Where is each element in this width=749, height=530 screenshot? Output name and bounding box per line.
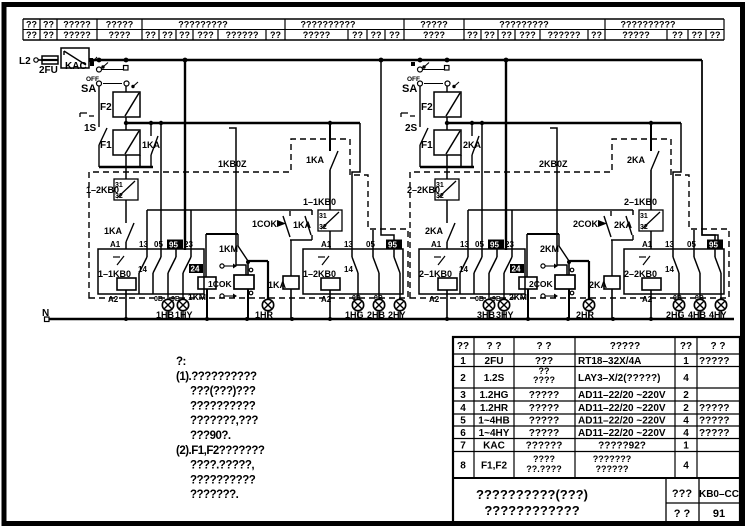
svg-text:31: 31 <box>640 213 648 220</box>
svg-text:??????????: ?????????? <box>190 474 256 486</box>
lamp 1HG <box>352 299 363 310</box>
dashed group boundary 1KB0Z <box>89 139 408 298</box>
title block text <box>476 487 739 520</box>
coil 2KM <box>509 234 559 319</box>
svg-text:13: 13 <box>460 240 469 249</box>
relay unit box 2&#8211;2KB0 <box>624 249 724 294</box>
svg-text:1~4HB: 1~4HB <box>478 416 509 427</box>
contacts 13 05 95 23 in unit 1 <box>138 240 203 295</box>
wire lamp <box>167 312 169 320</box>
svg-text:???: ??? <box>519 30 536 40</box>
svg-text:??: ?? <box>389 30 400 40</box>
terminal L2 <box>19 56 42 67</box>
svg-text:?????: ????? <box>303 30 331 40</box>
junction dots on second bus <box>445 121 653 125</box>
svg-text:05: 05 <box>154 240 163 249</box>
svg-text:F1: F1 <box>100 140 112 151</box>
cam switch coil 1COK <box>208 260 254 319</box>
wire top supply bus <box>89 59 702 62</box>
svg-text:05: 05 <box>475 240 484 249</box>
lamp 2HY <box>394 299 405 310</box>
lamp 3HB <box>483 299 494 310</box>
svg-text:6: 6 <box>460 428 466 439</box>
wire drop from top bus to 95 <box>702 60 715 249</box>
svg-text:???(???)???: ???(???)??? <box>190 386 256 398</box>
parts table grid <box>453 337 740 524</box>
svg-text:95: 95 <box>169 241 178 250</box>
svg-text:7: 7 <box>460 441 466 452</box>
svg-text:(1).??????????: (1).?????????? <box>176 371 257 383</box>
svg-text:KB0–CC: KB0–CC <box>699 489 739 500</box>
svg-text:A2: A2 <box>108 295 119 304</box>
switch 1S <box>80 112 107 167</box>
svg-text:4: 4 <box>683 416 689 427</box>
wire F2 to node <box>125 117 127 130</box>
terminal labels 08 98 unit1 <box>154 294 183 303</box>
svg-text:1: 1 <box>683 441 689 452</box>
svg-text:??: ?? <box>145 30 156 40</box>
svg-text:??????????: ?????????? <box>190 400 256 412</box>
svg-text:1COK: 1COK <box>252 219 278 229</box>
svg-text:?????????: ????????? <box>178 20 227 30</box>
svg-text:??: ?? <box>43 30 54 40</box>
svg-text:F1,F2: F1,F2 <box>481 460 508 471</box>
svg-text:0B: 0B <box>154 296 163 303</box>
wire distribution rail y210 <box>468 210 633 249</box>
svg-text:F2: F2 <box>100 102 112 113</box>
svg-text:1.2S: 1.2S <box>484 373 505 384</box>
junction dots on top bus <box>97 58 509 63</box>
svg-text:2KA: 2KA <box>627 155 646 165</box>
svg-text:A1: A1 <box>321 240 332 249</box>
svg-text:??: ?? <box>162 30 173 40</box>
svg-text:?:: ?: <box>176 356 186 368</box>
wire lamp <box>357 312 359 320</box>
wire drop from second bus to 13 <box>673 123 681 249</box>
svg-text:95: 95 <box>490 241 499 250</box>
svg-text:? ?: ? ? <box>537 341 552 352</box>
junction dots on second bus <box>124 121 332 125</box>
svg-text:??????: ?????? <box>596 464 629 474</box>
lamp 2HB <box>373 299 384 310</box>
svg-text:??????: ?????? <box>526 441 563 452</box>
svg-text:4: 4 <box>683 373 689 384</box>
svg-text:???: ??? <box>197 30 214 40</box>
svg-text:?????: ????? <box>699 356 730 367</box>
wire F1 to bottom node <box>446 155 448 167</box>
svg-text:1KA: 1KA <box>268 280 287 290</box>
svg-text:F1: F1 <box>421 140 433 151</box>
svg-text:SA: SA <box>81 83 96 95</box>
svg-text:??: ?? <box>692 30 703 40</box>
svg-text:?????: ????? <box>610 341 641 352</box>
svg-text:???????: ??????? <box>593 454 631 464</box>
svg-text:95: 95 <box>388 241 397 250</box>
wire stub to 05 <box>372 230 374 249</box>
wire lamp <box>503 312 505 320</box>
contact 1KM <box>219 234 248 261</box>
selector switch SA <box>402 62 459 112</box>
svg-text:?????: ????? <box>63 20 91 30</box>
fuse 2FU <box>39 56 58 76</box>
svg-text:24: 24 <box>191 265 200 274</box>
notes text block <box>176 356 265 501</box>
wire bottom node <box>99 166 153 168</box>
svg-text:2COK: 2COK <box>573 219 599 229</box>
wire top bus corner drop to 95 contact <box>702 60 718 249</box>
svg-text:AD11–22/20 ~220V: AD11–22/20 ~220V <box>578 428 666 439</box>
lamp 1HY <box>177 299 188 310</box>
interlock contact 2&#8211;2KB0 with pins 31 32 <box>407 179 459 200</box>
svg-text:F2: F2 <box>421 102 433 113</box>
header strip labels <box>26 20 721 41</box>
svg-text:24: 24 <box>512 265 521 274</box>
svg-text:?????: ????? <box>106 20 134 30</box>
circuit breaker F1 <box>421 130 461 155</box>
svg-text:????????????: ???????????? <box>484 503 579 518</box>
svg-text:23: 23 <box>184 240 193 249</box>
wire node to interlock <box>125 167 127 179</box>
svg-text:?????: ????? <box>622 30 650 40</box>
svg-text:1: 1 <box>683 356 689 367</box>
svg-text:2S: 2S <box>405 123 418 134</box>
contacts 13 05 95 in unit 2 <box>665 240 723 295</box>
header strip grid <box>23 19 724 40</box>
svg-text:????: ???? <box>533 375 555 385</box>
svg-text:?????: ????? <box>529 416 560 427</box>
svg-text:??: ?? <box>591 30 602 40</box>
svg-text:14: 14 <box>665 265 674 274</box>
svg-text:1COK: 1COK <box>208 279 232 289</box>
wire lamp <box>488 312 490 320</box>
coil 2KA <box>589 276 620 319</box>
coil 1KM <box>188 234 238 319</box>
lamp labels 1HG 2HB 2HY <box>345 310 406 320</box>
contact 2KM <box>540 234 569 261</box>
lamp 4HY <box>715 299 726 310</box>
svg-text:4: 4 <box>683 428 689 439</box>
wire lamp <box>267 312 269 320</box>
wire lamp <box>720 312 722 320</box>
svg-text:1KA: 1KA <box>306 155 325 165</box>
svg-text:2KA: 2KA <box>614 220 633 230</box>
svg-text:?????: ????? <box>63 30 91 40</box>
svg-text:3: 3 <box>460 390 466 401</box>
wire drop from second bus to 13 <box>352 123 360 249</box>
relay unit box 2&#8211;1KB0 <box>419 249 525 294</box>
svg-text:? ?: ? ? <box>711 341 726 352</box>
svg-text:??: ?? <box>43 20 54 30</box>
wire lamp <box>378 312 380 320</box>
contact 1KA above A1 <box>104 200 134 249</box>
contact 2KA above coil <box>614 216 633 235</box>
coil of 1&#8211;1KB0 <box>108 278 136 319</box>
svg-text:??: ?? <box>352 30 363 40</box>
svg-text:2–2KB0: 2–2KB0 <box>407 185 440 195</box>
wire node to interlock <box>446 167 448 179</box>
terminal labels 08 98 unit2 <box>673 294 721 302</box>
svg-text:???????,???: ???????,??? <box>190 415 258 427</box>
svg-text:????: ???? <box>533 454 555 464</box>
contact 2COK changeover <box>573 211 611 237</box>
svg-text:A1: A1 <box>431 240 442 249</box>
svg-text:?????????: ????????? <box>499 20 548 30</box>
coil of 2&#8211;1KB0 <box>429 278 457 319</box>
svg-text:??: ?? <box>680 341 692 352</box>
svg-text:1KA: 1KA <box>104 226 123 236</box>
svg-text:2KA: 2KA <box>425 226 444 236</box>
svg-text:?????: ????? <box>699 416 730 427</box>
svg-text:2FU: 2FU <box>39 65 58 76</box>
svg-text:5: 5 <box>460 416 466 427</box>
svg-text:??: ?? <box>457 341 469 352</box>
selector switch SA <box>81 62 138 112</box>
svg-text:? ?: ? ? <box>487 341 502 352</box>
svg-text:2KM: 2KM <box>540 244 559 254</box>
svg-text:8: 8 <box>460 460 466 471</box>
wire A1 feeder with contact 1KA <box>306 123 338 210</box>
svg-text:1KA: 1KA <box>293 220 312 230</box>
svg-text:95: 95 <box>709 241 718 250</box>
svg-text:1KM: 1KM <box>219 244 238 254</box>
svg-text:??????????: ?????????? <box>301 20 356 30</box>
svg-text:2: 2 <box>683 403 689 414</box>
wire distribution rail y210 <box>147 210 312 249</box>
svg-text:A2: A2 <box>321 295 332 304</box>
wire F2 to node <box>446 117 448 130</box>
svg-text:??: ?? <box>467 30 478 40</box>
wire feeder to COK coil <box>550 128 567 275</box>
svg-text:A2: A2 <box>642 295 653 304</box>
svg-text:?????: ????? <box>699 428 730 439</box>
contact 1COK changeover <box>252 211 290 237</box>
svg-text:??: ?? <box>26 30 37 40</box>
svg-text:0B: 0B <box>475 296 484 303</box>
svg-text:A1: A1 <box>110 240 121 249</box>
lamp 2HG <box>673 299 684 310</box>
svg-text:1~4HY: 1~4HY <box>479 428 510 439</box>
contact 2KA beside F1 <box>463 123 482 167</box>
svg-text:13: 13 <box>344 240 353 249</box>
svg-text:??????????(???): ??????????(???) <box>476 487 588 502</box>
interlock contact 1&#8211;2KB0 with pins 31 32 <box>86 179 138 200</box>
wire feeder to 05 contact <box>160 123 162 249</box>
coil of 1&#8211;2KB0 <box>321 278 340 319</box>
dashed group boundary 2KB0Z <box>410 139 729 298</box>
contacts 13 05 95 23 in unit 1 <box>459 240 524 295</box>
svg-text:??: ?? <box>179 30 190 40</box>
svg-text:14: 14 <box>459 265 468 274</box>
contact 2KA above A1 <box>425 200 455 249</box>
svg-text:RT18–32X/4A: RT18–32X/4A <box>578 356 641 367</box>
svg-text:?????: ????? <box>529 390 560 401</box>
svg-text:1KA: 1KA <box>142 140 161 150</box>
terminal labels 08 98 unit1 <box>475 294 504 303</box>
svg-text:AD11–22/20 ~220V: AD11–22/20 ~220V <box>578 416 666 427</box>
junction dots on N bus <box>124 317 653 321</box>
relay unit box 1&#8211;1KB0 <box>98 249 204 294</box>
lamp 3HY <box>498 299 509 310</box>
lamp 4HB <box>694 299 705 310</box>
svg-text:SA: SA <box>402 83 417 95</box>
svg-text:????: ???? <box>109 30 131 40</box>
lamp labels 1HB 1HY <box>156 310 193 320</box>
lamp 1HR <box>262 299 273 310</box>
svg-text:2KA: 2KA <box>589 280 608 290</box>
svg-text:LAY3–X/2(?????): LAY3–X/2(?????) <box>578 373 660 384</box>
svg-text:L2: L2 <box>19 56 31 67</box>
circuit breaker F2 (SA side) <box>100 92 140 117</box>
wire stub to 05 <box>693 230 695 249</box>
wire second bus <box>126 122 360 125</box>
svg-text:1–1KB0: 1–1KB0 <box>303 197 336 207</box>
relay unit box 1&#8211;2KB0 <box>303 249 403 294</box>
lamp 1HB <box>162 299 173 310</box>
svg-text:??????: ?????? <box>548 30 581 40</box>
svg-text:1–2KB0: 1–2KB0 <box>86 185 119 195</box>
svg-text:13: 13 <box>665 240 674 249</box>
svg-text:2KM: 2KM <box>509 292 527 302</box>
svg-text:?????: ????? <box>699 403 730 414</box>
lamp 2HR <box>583 299 594 310</box>
contact 1KA above coil <box>293 216 312 235</box>
svg-text:91: 91 <box>713 508 725 520</box>
wire lamp <box>182 312 184 320</box>
circuit breaker F1 <box>100 130 140 155</box>
wire lamp <box>588 312 590 320</box>
svg-text:1S: 1S <box>84 123 97 134</box>
wire lamp <box>699 312 701 320</box>
svg-text:A2: A2 <box>429 295 440 304</box>
svg-text:13: 13 <box>139 240 148 249</box>
wire neutral bus N <box>42 308 734 322</box>
svg-text:31: 31 <box>319 213 327 220</box>
parts table text <box>457 341 730 474</box>
svg-text:4: 4 <box>460 403 466 414</box>
lamp labels 2HG 4HB 4HY <box>666 310 727 320</box>
coil of 2&#8211;2KB0 <box>642 278 661 319</box>
svg-text:2–1KB0: 2–1KB0 <box>624 197 657 207</box>
wire feeder x185 <box>184 60 186 250</box>
svg-text:???: ??? <box>672 488 692 500</box>
svg-text:????.?????,: ????.?????, <box>190 460 254 472</box>
svg-text:(2).F1,F2???????: (2).F1,F2??????? <box>176 445 265 457</box>
wire A1 feeder with contact 2KA <box>627 123 659 210</box>
wire lamp <box>678 312 680 320</box>
wire junction to HR lamp and KA coil <box>248 235 312 300</box>
svg-text:??: ?? <box>501 30 512 40</box>
wire second bus <box>447 122 681 125</box>
svg-text:????: ???? <box>423 30 445 40</box>
contact 1KA beside F1 <box>142 123 161 167</box>
svg-text:KAC: KAC <box>65 61 87 72</box>
svg-text:?????: ????? <box>420 20 448 30</box>
svg-text:1KB0Z: 1KB0Z <box>218 159 247 169</box>
svg-text:??: ?? <box>484 30 495 40</box>
wire junction to HR lamp and KA coil <box>569 235 633 300</box>
svg-text:??????: ?????? <box>226 30 259 40</box>
svg-text:???90?.: ???90?. <box>190 430 231 442</box>
svg-text:AD11–22/20 ~220V: AD11–22/20 ~220V <box>578 403 666 414</box>
svg-text:1: 1 <box>460 356 466 367</box>
wire feeder x185 <box>505 60 507 250</box>
svg-text:4: 4 <box>683 460 689 471</box>
interlock contact 1&#8211;1KB0 with pins 31 32 <box>303 197 342 249</box>
svg-text:1.2HR: 1.2HR <box>480 403 509 414</box>
svg-text:23: 23 <box>505 240 514 249</box>
cam switch coil 2COK <box>529 260 575 319</box>
svg-text:2FU: 2FU <box>485 356 504 367</box>
svg-text:??????????: ?????????? <box>621 20 676 30</box>
contacts 13 05 95 in unit 2 <box>344 240 402 295</box>
svg-text:2KA: 2KA <box>463 140 482 150</box>
svg-text:05: 05 <box>366 240 375 249</box>
svg-text:1.2HG: 1.2HG <box>480 390 509 401</box>
svg-text:KAC: KAC <box>483 441 505 452</box>
terminal labels 08 98 unit2 <box>352 294 400 302</box>
svg-text:??: ?? <box>270 30 281 40</box>
svg-text:??: ?? <box>672 30 683 40</box>
wire bottom node <box>420 166 474 168</box>
coil 1KA <box>268 276 299 319</box>
svg-text:05: 05 <box>687 240 696 249</box>
svg-text:??: ?? <box>371 30 382 40</box>
relay contact KAC <box>61 48 97 72</box>
wire F1 to bottom node <box>125 155 127 167</box>
wire feeder to 05 contact <box>481 123 483 249</box>
circuit breaker F2 (SA side) <box>421 92 461 117</box>
interlock contact 2&#8211;1KB0 with pins 31 32 <box>624 197 663 249</box>
svg-text:A1: A1 <box>642 240 653 249</box>
svg-text:2: 2 <box>683 390 689 401</box>
svg-text:?????: ????? <box>529 403 560 414</box>
svg-text:2COK: 2COK <box>529 279 553 289</box>
svg-text:2: 2 <box>460 373 466 384</box>
wire lamp <box>399 312 401 320</box>
svg-text:???????.: ???????. <box>190 489 239 501</box>
svg-text:?????: ????? <box>529 428 560 439</box>
svg-text:14: 14 <box>138 265 147 274</box>
svg-text:AD11–22/20 ~220V: AD11–22/20 ~220V <box>578 390 666 401</box>
svg-text:??: ?? <box>26 20 37 30</box>
lamp labels 3HB 3HY <box>477 310 514 320</box>
svg-text:1KM: 1KM <box>188 292 206 302</box>
svg-text:2KB0Z: 2KB0Z <box>539 159 568 169</box>
wire drop from top bus to 95 <box>381 60 394 249</box>
svg-text:?????92?: ?????92? <box>598 441 646 452</box>
wire feeder to COK coil <box>229 128 246 275</box>
svg-text:??: ?? <box>710 30 721 40</box>
svg-text:? ?: ? ? <box>674 508 691 520</box>
switch 2S <box>401 112 428 167</box>
svg-text:14: 14 <box>344 265 353 274</box>
svg-text:??.????: ??.???? <box>526 464 562 474</box>
